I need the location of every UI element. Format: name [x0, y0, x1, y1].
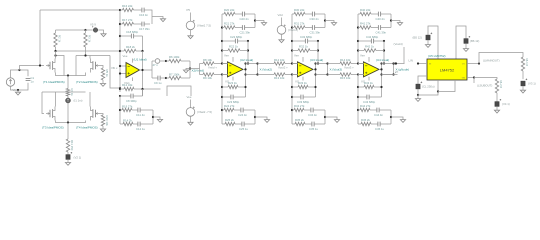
svg-text:(I1 1m): (I1 1m)	[74, 99, 83, 103]
svg-text:C32 680p: C32 680p	[300, 35, 313, 39]
svg-text:R14 2k: R14 2k	[123, 118, 132, 122]
wire out rail U2	[243, 68, 246, 70]
wire op1 +input	[120, 65, 126, 67]
svg-text:Vout3 +: Vout3 +	[344, 66, 354, 70]
wire I1 down	[67, 103, 69, 123]
battery V3	[521, 81, 525, 86]
resistor R22 1k	[221, 49, 223, 51]
svg-text:(VG4 2): (VG4 2)	[288, 28, 298, 32]
wire upper bus U4	[357, 14, 359, 64]
capacitor C40 4n	[371, 13, 378, 15]
resistor R40 22k	[358, 13, 360, 15]
wire lower right bus U3	[324, 110, 326, 124]
node rail B	[84, 54, 86, 56]
svg-text:Vdd: Vdd	[278, 13, 283, 17]
ground V2	[67, 159, 69, 162]
wire to stage2	[190, 68, 200, 70]
wire lower right bus U2	[254, 110, 256, 124]
svg-text:R3 1k: R3 1k	[87, 35, 91, 43]
capacitor C21 39n	[235, 27, 242, 29]
ground lower U2	[255, 117, 267, 120]
resistor Rin+ U4	[340, 62, 351, 65]
ground V3	[522, 86, 524, 90]
wire to V5	[86, 29, 93, 31]
svg-text:R40 22k: R40 22k	[360, 8, 371, 12]
svg-text:VO: VO	[462, 64, 465, 66]
svg-text:(V3 1): (V3 1)	[528, 82, 536, 86]
svg-text:C20 4n: C20 4n	[240, 17, 249, 21]
svg-text:(B5 12): (B5 12)	[413, 36, 422, 40]
rail A drains	[56, 50, 121, 52]
battery B5	[428, 26, 438, 59]
transistor T3 (JFET)	[55, 92, 57, 107]
node rail V5	[84, 29, 86, 31]
wire bus x142 upper	[142, 36, 144, 51]
capacitor C18	[120, 35, 131, 37]
resistor R7	[166, 77, 169, 79]
transistor T2 (JFET)	[89, 56, 91, 59]
ground stage1 lower	[153, 117, 160, 119]
transistor T1 (JFET)	[55, 51, 57, 59]
wire lower tail down	[67, 123, 69, 140]
svg-text:R10 10k: R10 10k	[105, 116, 109, 127]
wire RL2 down	[496, 93, 498, 102]
wire out rail U3	[313, 68, 316, 70]
svg-text:Vmid +: Vmid +	[208, 66, 217, 70]
node rail A left	[54, 50, 56, 52]
node y78	[165, 77, 167, 79]
svg-text:C35 1u: C35 1u	[309, 127, 318, 131]
svg-text:R23 1k: R23 1k	[228, 81, 237, 85]
svg-text:R8 10k: R8 10k	[203, 58, 212, 62]
svg-text:R32 1k: R32 1k	[299, 45, 308, 49]
svg-text:C23 680p: C23 680p	[227, 100, 240, 104]
wire out bus B U3	[316, 63, 328, 65]
svg-text:(T1 IdealPMOS): (T1 IdealPMOS)	[43, 80, 65, 84]
rail lower drains	[42, 91, 86, 93]
ground mid	[186, 69, 190, 71]
wire sources join	[56, 73, 86, 76]
battery V4	[495, 102, 499, 107]
resistor R6	[166, 60, 169, 62]
svg-text:C8 390p: C8 390p	[126, 99, 137, 103]
svg-text:C22 680p: C22 680p	[230, 35, 243, 39]
wire T2 gate to R5	[100, 66, 104, 69]
resistor R43 1k	[357, 86, 359, 88]
svg-text:RL2 8: RL2 8	[499, 81, 503, 89]
svg-text:R11 150: R11 150	[70, 140, 74, 151]
resistor Rin- U3	[274, 73, 285, 76]
svg-text:R35 2k: R35 2k	[295, 118, 304, 122]
resistor R21 27k	[221, 26, 223, 28]
svg-text:R19 27k: R19 27k	[122, 104, 133, 108]
svg-text:R7 100k: R7 100k	[169, 72, 180, 76]
resistor R35 2k	[292, 123, 295, 125]
wire upper bus U3	[291, 14, 293, 64]
svg-text:(CL 250u): (CL 250u)	[422, 84, 435, 88]
battery V2	[67, 152, 69, 155]
capacitor C11	[132, 109, 138, 111]
capacitor C8	[119, 95, 121, 97]
svg-text:(U4 Ideal): (U4 Ideal)	[376, 58, 389, 62]
svg-text:R31 27k: R31 27k	[294, 22, 305, 26]
wire IC out top	[467, 63, 479, 65]
wire loop below op1	[167, 86, 191, 96]
svg-text:C21 39n: C21 39n	[240, 31, 251, 35]
wire bus x142 lower	[142, 51, 144, 96]
resistor R2	[55, 30, 57, 33]
node y61	[165, 60, 167, 62]
capacitor C24 4n	[234, 109, 241, 111]
svg-text:R24 27k: R24 27k	[224, 104, 235, 108]
svg-text:R43 1k: R43 1k	[364, 81, 373, 85]
wire upper right bus U4	[390, 14, 392, 28]
wire input top loop	[11, 70, 20, 78]
ground B5	[427, 40, 429, 45]
voltage source V5	[93, 28, 98, 33]
svg-text:(Vbat2 -7.5): (Vbat2 -7.5)	[197, 110, 212, 114]
wire IC out bottom	[467, 77, 474, 79]
capacitor C32 680p	[291, 40, 293, 42]
capacitor C25 1u	[235, 123, 242, 125]
ground lower U3	[325, 117, 337, 120]
wire upper bus U2	[221, 14, 223, 64]
svg-text:R12 32k: R12 32k	[122, 83, 133, 87]
resistor R45 2k	[358, 123, 361, 125]
svg-text:C17 39n: C17 39n	[139, 27, 150, 31]
resistor R4 tail	[66, 89, 69, 97]
node x110 join	[119, 87, 121, 89]
label LSUBOUT	[473, 78, 475, 84]
svg-text:(T2 IdealPMOS): (T2 IdealPMOS)	[76, 80, 98, 84]
svg-text:R14 10k: R14 10k	[340, 58, 351, 62]
capacitor C22 680p	[221, 40, 223, 42]
resistor R31 27k	[291, 26, 293, 28]
capacitor C17	[134, 23, 142, 25]
svg-text:(U5 LM4752): (U5 LM4752)	[428, 54, 446, 58]
ground R10	[102, 126, 104, 129]
resistor R25 2k	[222, 123, 225, 125]
resistor R12 stage1	[119, 88, 121, 90]
node op1 out	[141, 69, 143, 71]
capacitor C20 4n	[235, 13, 242, 15]
resistor RL1	[521, 57, 524, 71]
svg-text:(V2 1): (V2 1)	[74, 155, 82, 159]
wire inner bus U2	[247, 41, 249, 64]
wire lower right bus U4	[390, 110, 392, 124]
svg-text:R16 22k: R16 22k	[122, 4, 133, 8]
svg-text:R21 27k: R21 27k	[224, 22, 235, 26]
svg-text:R25 2k: R25 2k	[225, 118, 234, 122]
ground spur	[160, 19, 165, 22]
wire IC bottom pins	[437, 80, 439, 92]
wire split before U2	[199, 64, 201, 75]
svg-text:RL1 8: RL1 8	[525, 59, 529, 67]
svg-text:Vout2 +: Vout2 +	[278, 66, 288, 70]
ground upper U4	[391, 21, 400, 23]
svg-text:1u: 1u	[31, 80, 35, 84]
wire feedback top	[40, 9, 120, 11]
resistor RL2	[495, 79, 498, 93]
capacitor C44 4n	[370, 109, 377, 111]
wire RL1 down	[522, 71, 524, 79]
resistor R30 22k	[292, 13, 294, 15]
wire branch1 right	[150, 10, 152, 24]
capacitor C31 39n	[305, 27, 312, 29]
capacitor C16	[134, 9, 142, 11]
svg-text:C18 680p: C18 680p	[126, 30, 139, 34]
wire spur to ground	[152, 17, 163, 19]
svg-text:R12 10k: R12 10k	[274, 58, 285, 62]
svg-text:(B6 12): (B6 12)	[470, 39, 479, 43]
resistor R17	[123, 22, 134, 25]
resistor R34 27k	[291, 109, 293, 111]
ground Vbat2	[188, 122, 193, 125]
rail B left segment	[56, 56, 65, 76]
wire left gate riser	[42, 92, 44, 114]
wire T4 gate to R10	[100, 114, 104, 116]
wire bus x120	[119, 10, 121, 92]
resistor R33 1k	[291, 86, 293, 88]
node bus y36	[119, 35, 121, 37]
wire rails to next stage	[328, 63, 341, 65]
svg-text:R6 100k: R6 100k	[169, 55, 180, 59]
svg-text:X2(Vmid): X2(Vmid)	[192, 69, 205, 73]
wire drop x190	[189, 61, 191, 78]
ground R5	[102, 80, 104, 84]
wire inner bus U4	[383, 41, 385, 64]
svg-text:(LSUBOUT): (LSUBOUT)	[477, 83, 492, 87]
resistor Rin+ U3	[274, 62, 285, 65]
svg-text:C30 4n: C30 4n	[310, 17, 319, 21]
wire out riser	[151, 61, 153, 78]
wire V5 to ground	[98, 30, 103, 34]
svg-text:X (gNode): X (gNode)	[396, 68, 410, 72]
node rail A right	[119, 50, 121, 52]
svg-text:(T3 IdealPMOS): (T3 IdealPMOS)	[42, 126, 64, 130]
capacitor C33 680p	[291, 96, 293, 98]
battery B6	[456, 26, 466, 59]
svg-text:C42 680p: C42 680p	[366, 35, 379, 39]
wire lower bus U4	[357, 75, 359, 125]
svg-text:R44 27k: R44 27k	[360, 104, 371, 108]
wire tail down	[67, 76, 69, 89]
capacitor C12	[133, 123, 138, 125]
node bus y24	[119, 23, 121, 25]
voltage source VG1 (input)	[6, 78, 14, 86]
wire upper right bus U2	[254, 14, 256, 28]
svg-text:GN: GN	[462, 77, 466, 79]
resistor R16	[123, 8, 134, 11]
svg-text:R17 27k: R17 27k	[122, 18, 133, 22]
wire op1 power down	[132, 77, 134, 81]
wire stage1 lower bus	[119, 96, 121, 124]
resistor Rin- U2	[203, 73, 214, 76]
svg-text:Vee: Vee	[123, 54, 128, 58]
resistor R5	[101, 68, 104, 80]
svg-text:C34 4n: C34 4n	[308, 113, 317, 117]
resistor Rin+ U2	[203, 62, 214, 65]
capacitor C41 39n	[371, 27, 378, 29]
svg-text:C40 4n: C40 4n	[376, 17, 385, 21]
svg-text:R5 1k: R5 1k	[105, 70, 109, 78]
node gnode	[395, 62, 397, 64]
node CL bottom	[417, 94, 419, 96]
svg-text:R30 22k: R30 22k	[294, 8, 305, 12]
svg-text:Vee: Vee	[360, 54, 365, 58]
ground VG4	[279, 40, 284, 43]
svg-text:Vee: Vee	[224, 54, 229, 58]
resistor R41 27k	[357, 26, 359, 28]
capacitor C9	[152, 77, 158, 79]
svg-text:R45 2k: R45 2k	[361, 118, 370, 122]
svg-text:R34 27k: R34 27k	[294, 104, 305, 108]
wire feedback vertical	[39, 10, 41, 66]
svg-text:C43 680p: C43 680p	[363, 100, 376, 104]
resistor R19	[119, 109, 121, 111]
svg-text:R20 22k: R20 22k	[224, 8, 235, 12]
svg-text:LIN: LIN	[409, 59, 413, 63]
wire lower bus U2	[221, 75, 223, 125]
wire rails to next stage	[258, 63, 275, 65]
svg-text:R41 27k: R41 27k	[360, 22, 371, 26]
svg-text:P5: P5	[187, 8, 191, 12]
capacitor C43 680p	[357, 96, 359, 98]
ground V4	[496, 106, 498, 110]
svg-text:R42 1k: R42 1k	[365, 45, 374, 49]
node input bottom	[17, 89, 19, 91]
svg-text:V5 9: V5 9	[90, 23, 96, 27]
wire op1 -input	[120, 73, 126, 75]
resistor R14	[120, 123, 123, 125]
svg-text:C25 1u: C25 1u	[239, 127, 248, 131]
resistor R11	[66, 139, 69, 152]
svg-text:47 n: 47 n	[153, 63, 159, 67]
resistor R24 27k	[221, 109, 223, 111]
wire inner bus U3	[317, 41, 319, 64]
svg-text:C41 39n: C41 39n	[376, 31, 387, 35]
svg-text:X (Vout3): X (Vout3)	[330, 68, 343, 72]
svg-text:C11 4n: C11 4n	[136, 113, 145, 117]
node x142 y51	[141, 50, 143, 52]
svg-text:C45 1u: C45 1u	[375, 127, 384, 131]
wire stage4 out flag	[403, 47, 405, 64]
capacitor C1	[26, 78, 31, 80]
capacitor C23 680p	[221, 96, 223, 98]
node lower tail	[67, 121, 69, 123]
node bus y10	[119, 9, 121, 11]
resistor R10	[101, 115, 104, 126]
transistor T4 (JFET)	[89, 92, 91, 107]
resistor R42 1k	[357, 49, 359, 51]
capacitor CL	[416, 84, 420, 89]
ground V5	[101, 34, 106, 37]
resistor R18	[120, 50, 124, 52]
svg-text:R22 1k: R22 1k	[229, 45, 238, 49]
resistor R3	[85, 30, 87, 33]
wire input bottom	[11, 86, 19, 90]
ground CL	[417, 95, 419, 99]
capacitor C30 4n	[305, 13, 312, 15]
svg-text:C44 4n: C44 4n	[374, 113, 383, 117]
ground input	[17, 90, 19, 92]
svg-text:Vfb x: Vfb x	[111, 66, 118, 70]
svg-text:R4 1k: R4 1k	[70, 89, 74, 97]
resistor R20 22k	[222, 13, 224, 15]
wire rail B right down	[110, 56, 120, 89]
node tail	[67, 74, 69, 76]
svg-text:(Vout4): (Vout4)	[394, 42, 403, 46]
capacitor C35 1u	[305, 123, 312, 125]
wire stage4 out stubs	[394, 63, 405, 65]
wire lower sources join	[56, 121, 86, 123]
wire out bus B U2	[246, 63, 258, 65]
ground upper U2	[255, 21, 264, 23]
svg-text:(U1 Ideal): (U1 Ideal)	[134, 58, 147, 62]
wire op1 output	[140, 69, 153, 71]
wire IC left lower pin	[418, 76, 427, 84]
svg-text:R2 1k: R2 1k	[57, 35, 61, 43]
svg-text:R13 10k: R13 10k	[274, 76, 285, 80]
wire cap bottom	[18, 83, 28, 90]
ground B6	[465, 43, 467, 48]
svg-text:LM4752: LM4752	[440, 67, 455, 72]
capacitor C42 680p	[357, 40, 359, 42]
svg-text:Vee: Vee	[294, 54, 299, 58]
svg-text:(T4 IdealPMOS): (T4 IdealPMOS)	[76, 126, 98, 130]
svg-text:(U2 Ideal): (U2 Ideal)	[240, 58, 253, 62]
capacitor C45 1u	[371, 123, 378, 125]
svg-text:C33 680p: C33 680p	[297, 100, 310, 104]
wire drain rail top	[56, 29, 86, 31]
svg-text:C16 4n: C16 4n	[139, 13, 148, 17]
ground Vbat1	[188, 36, 193, 39]
svg-text:R9 10k: R9 10k	[203, 76, 212, 80]
svg-text:R18 2k: R18 2k	[126, 45, 135, 49]
wire lower bus U3	[291, 75, 293, 125]
capacitor C19 series	[155, 59, 160, 64]
svg-text:X (Vout2): X (Vout2)	[260, 68, 273, 72]
svg-text:(Vbat1 7.5): (Vbat1 7.5)	[197, 23, 211, 27]
wire stage1 right bus	[152, 110, 154, 124]
resistor R23 1k	[221, 86, 223, 88]
resistor Rin- U4	[340, 73, 351, 76]
ground upper U3	[325, 21, 334, 23]
svg-text:(LMAINOUT): (LMAINOUT)	[483, 58, 500, 62]
wire gate riser to T1	[20, 66, 45, 71]
svg-text:C9 1u: C9 1u	[154, 81, 162, 85]
svg-text:R33 1k: R33 1k	[298, 81, 307, 85]
current source I1	[67, 96, 69, 98]
svg-text:(V4 1): (V4 1)	[502, 102, 510, 106]
svg-text:C24 4n: C24 4n	[238, 113, 247, 117]
svg-text:C31 39n: C31 39n	[310, 31, 321, 35]
wire out rail U4	[379, 68, 382, 70]
resistor R44 27k	[357, 109, 359, 111]
capacitor C34 4n	[304, 109, 311, 111]
svg-text:C12 1u: C12 1u	[136, 127, 145, 131]
node bus y51	[119, 50, 121, 52]
node gate T1	[39, 64, 41, 66]
wire out bus B U4	[382, 63, 394, 65]
rail B right segment	[76, 55, 110, 57]
svg-text:Vee: Vee	[187, 95, 192, 99]
node mid out	[189, 67, 191, 69]
resistor R32 1k	[291, 49, 293, 51]
svg-text:(U3 Ideal): (U3 Ideal)	[310, 58, 323, 62]
svg-text:R15 10k: R15 10k	[340, 76, 351, 80]
wire input to cap	[20, 70, 29, 76]
